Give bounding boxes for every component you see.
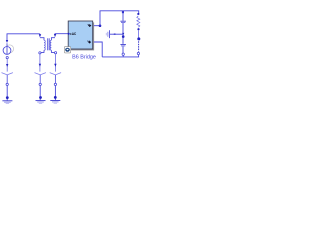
ground 1: [2, 101, 12, 104]
arrowhead into transformer primary: [39, 34, 41, 37]
wire primary to breaker S2: [39, 54, 41, 72]
bottom rail: [102, 55, 138, 57]
wire bridge plus output: [94, 25, 100, 27]
port label plus: [88, 24, 92, 27]
source bottom terminal node: [6, 57, 8, 59]
wire top-left from source to transformer primary: [7, 34, 40, 42]
arrowhead S3: [54, 64, 56, 67]
ground 2: [36, 101, 46, 104]
terminal node L1: [137, 52, 139, 54]
junction dot: [6, 96, 9, 99]
wire to ground 1: [6, 86, 8, 101]
arrowhead to ground: [113, 33, 115, 35]
transformer core: [48, 38, 50, 50]
inductor L1: [138, 41, 140, 51]
AC source I1 shadow: [6, 45, 14, 53]
port label AC: [70, 32, 77, 36]
breaker S1 contacts: [2, 73, 13, 75]
transformer T1 primary winding: [40, 38, 45, 53]
terminal node C2: [122, 53, 124, 55]
wire to bottom rail: [122, 55, 124, 57]
primary bottom terminal node: [39, 52, 41, 54]
arrowhead S1: [6, 64, 8, 67]
arrowhead midpoint: [122, 33, 124, 35]
resistor R1: [137, 16, 140, 27]
wire to ground 2: [39, 86, 41, 101]
wire bridge minus output: [94, 42, 102, 57]
ground 3: [50, 101, 60, 104]
transformer T1 secondary winding: [50, 38, 55, 53]
wire C2 down: [122, 46, 124, 53]
wire source to breaker S1: [6, 59, 8, 72]
junction dot DC plus: [122, 11, 124, 13]
ground middle rotated: [106, 30, 109, 38]
junction dot above L1: [137, 37, 140, 40]
wire below S3: [54, 75, 56, 83]
AC source bar: [6, 43, 8, 54]
subsystem badge: [64, 47, 70, 53]
terminal node: [6, 83, 8, 85]
capacitor C1: [120, 21, 126, 22]
wire secondary to breaker S3: [54, 54, 56, 72]
wire below S1: [6, 75, 8, 83]
AC source I1: [3, 47, 11, 55]
terminal node: [54, 83, 56, 85]
breaker S3 contacts: [50, 73, 61, 75]
wire below S2: [39, 75, 41, 83]
terminal node: [39, 83, 41, 85]
breaker S2 contacts: [35, 73, 46, 75]
junction dot below R1: [137, 28, 139, 30]
port dot AC input: [68, 33, 70, 35]
wire to C1: [122, 11, 124, 21]
svg-text:B6 Bridge: B6 Bridge: [72, 55, 96, 61]
arrowhead into source: [6, 40, 8, 43]
junction dot: [39, 96, 42, 99]
subsystem U1 shadow: [70, 22, 95, 50]
wire secondary top to bridge input: [54, 34, 69, 37]
junction dot load top: [137, 13, 139, 15]
wire C1 to midpoint: [122, 23, 124, 44]
secondary bottom terminal node: [55, 52, 57, 54]
arrowhead S2: [39, 64, 41, 67]
junction dot midpoint: [122, 35, 125, 38]
capacitor C2: [120, 45, 126, 46]
wire midpoint to ground: [110, 33, 123, 35]
port label minus: [88, 40, 92, 43]
wire to ground 3: [54, 86, 56, 101]
wire up to top rail: [100, 11, 139, 26]
subsystem U1 B6 Bridge block: [68, 21, 93, 49]
junction dot: [54, 96, 57, 99]
node at corner: [99, 24, 102, 27]
wire R1 to L1: [137, 30, 139, 37]
